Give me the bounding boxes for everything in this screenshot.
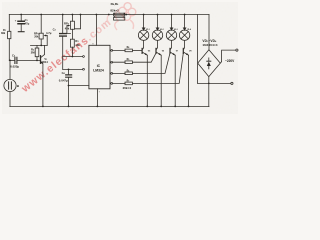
lamp and driver column 1 <box>138 15 148 107</box>
svg-text:R6: R6 <box>127 70 130 72</box>
wire RP2 bottom to bus <box>74 15 80 29</box>
resistor R8 parallel pair 82k <box>114 13 125 16</box>
bridge diode symbol <box>208 66 210 69</box>
svg-text:9014: 9014 <box>42 60 48 64</box>
svg-text:V5: V5 <box>148 50 150 52</box>
svg-text:VL4: VL4 <box>187 28 191 31</box>
svg-text:39k: 39k <box>1 32 6 35</box>
AC terminal lower <box>231 82 233 84</box>
svg-text:VL1: VL1 <box>146 29 150 31</box>
resistor R1 <box>8 31 11 38</box>
resistor R7 <box>125 82 132 85</box>
wire IC bottom pin <box>96 89 98 107</box>
svg-text:4.7μ: 4.7μ <box>46 31 52 35</box>
wire IC output row 4 <box>110 82 125 84</box>
svg-text:0.047μ: 0.047μ <box>59 79 68 83</box>
resistor R9 parallel pair 82k <box>114 17 125 20</box>
wire collector node <box>31 44 48 46</box>
capacitor C1 <box>20 15 22 21</box>
lamp and driver column 2 <box>152 15 162 107</box>
svg-text:~220V: ~220V <box>225 59 235 63</box>
wire IC output row 1 <box>110 49 125 51</box>
svg-text:43k: 43k <box>65 26 70 30</box>
capacitor C2 <box>15 57 17 63</box>
wire bridge bottom to ground <box>208 77 210 107</box>
svg-text:V6: V6 <box>162 50 164 52</box>
svg-text:VL2: VL2 <box>160 29 164 31</box>
diode arrow 1 <box>142 28 146 31</box>
wire node to IC pin upper <box>63 56 83 58</box>
svg-text:V8: V8 <box>189 50 191 52</box>
wire C2 to VT1 base <box>18 59 41 61</box>
wire mic output line <box>9 59 14 61</box>
capacitor C4 <box>68 69 70 74</box>
wire mic to ground bus <box>9 92 11 107</box>
svg-text:43k: 43k <box>75 43 80 47</box>
svg-text:R5: R5 <box>127 59 130 61</box>
svg-text:R4: R4 <box>127 46 130 49</box>
wire lamp 4 feed <box>184 15 186 28</box>
IC pin circles <box>83 50 113 85</box>
bridge rectifier VD1-VD4 <box>198 50 221 77</box>
diode arrow 3 <box>170 28 174 31</box>
potentiometer RP1 <box>40 15 42 34</box>
lamp VL3 <box>166 30 176 40</box>
resistor R3 <box>70 39 74 47</box>
lamp VL4 <box>179 30 189 40</box>
wire AC leg from top bus <box>197 15 199 84</box>
wire lamp 2 feed <box>157 15 159 28</box>
diode arrow 2 <box>156 28 160 31</box>
wire bridge top feed <box>208 15 210 50</box>
power supply right side <box>198 15 238 107</box>
svg-text:LM324: LM324 <box>93 69 104 73</box>
wire node to IC pin lower <box>63 68 83 70</box>
watermark www.elecfans.com diagonal <box>19 16 114 95</box>
op-amp IC U1 box <box>89 45 110 89</box>
lamp and driver column 3 <box>166 15 176 107</box>
svg-text:20k×4: 20k×4 <box>123 86 132 90</box>
lamp VL1 <box>138 30 148 40</box>
wire VT1 emitter to ground <box>42 64 44 107</box>
wire left frame upper segment <box>8 15 10 32</box>
wire AC line to terminal <box>198 82 231 84</box>
wire IC output row 3 <box>110 72 125 74</box>
svg-text:20k: 20k <box>34 35 39 38</box>
lamp and driver column 4 <box>179 15 189 107</box>
resistor R4 <box>125 49 132 52</box>
transistor VT1 <box>40 56 42 64</box>
svg-text:1N4004×4: 1N4004×4 <box>202 43 217 47</box>
wire top supply bus <box>9 14 209 16</box>
svg-text:47μ: 47μ <box>25 22 30 26</box>
watermark flower logo <box>107 3 136 30</box>
transistor V1 <box>142 40 144 50</box>
lamp VL2 <box>152 30 162 40</box>
wire lamp 3 feed <box>171 15 173 28</box>
wire IC top pin <box>95 15 97 46</box>
wire bottom ground bus <box>10 106 209 108</box>
wire emitter 1 to ground <box>146 55 148 106</box>
capacitor C3 <box>62 15 64 34</box>
svg-text:0.022μ: 0.022μ <box>10 65 19 69</box>
junction dots <box>9 14 210 108</box>
diode arrow 4 <box>183 28 187 31</box>
svg-text:V7: V7 <box>176 50 178 52</box>
svg-text:82k×2: 82k×2 <box>110 8 119 12</box>
transistor V2 <box>156 40 158 50</box>
resistor R6 <box>125 72 132 75</box>
wire IC output row 2 <box>110 61 125 63</box>
transistor V4 <box>183 40 184 50</box>
wire emitter 3 to ground <box>174 55 176 106</box>
potentiometer RP2 <box>71 15 73 22</box>
svg-text:R7: R7 <box>127 80 130 82</box>
resistor R2 <box>36 45 38 48</box>
wire emitter 4 to ground <box>188 55 190 106</box>
wire lamp 1 feed <box>143 15 145 28</box>
paper background <box>0 0 240 120</box>
svg-text:VL3: VL3 <box>174 29 178 31</box>
wire R1 to mic node <box>8 39 11 80</box>
resistor R5 <box>125 61 132 64</box>
wire bridge right to AC terminal <box>220 50 236 63</box>
AC terminal upper <box>236 49 238 51</box>
transistor V3 <box>170 40 172 50</box>
wire emitter 2 to ground <box>160 55 162 106</box>
microphone B <box>4 79 16 91</box>
